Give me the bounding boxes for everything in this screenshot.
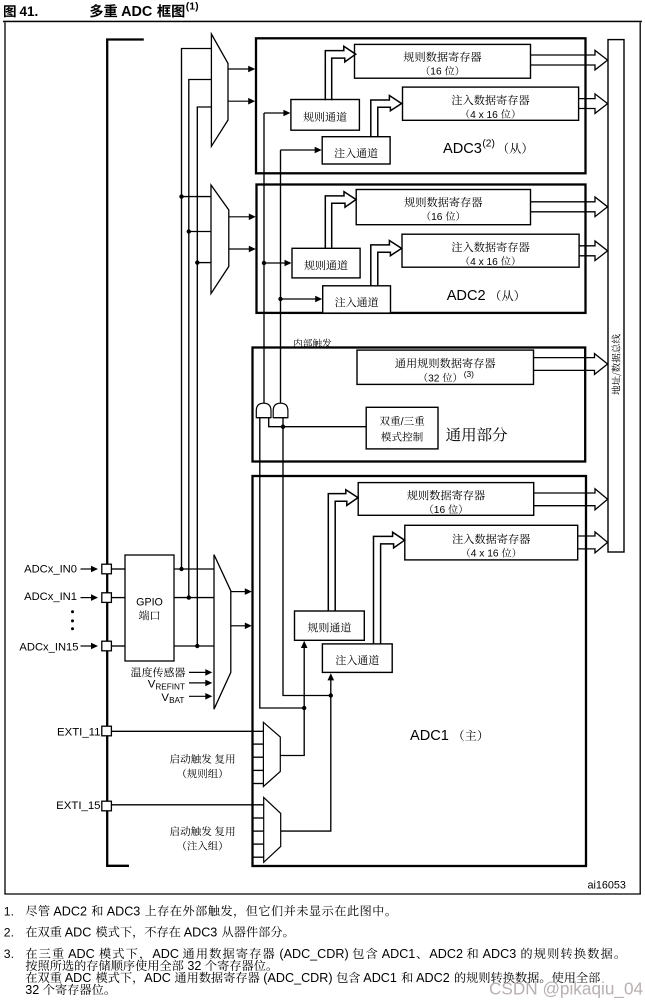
wire mux2 branch 2 [189, 231, 211, 233]
wire feeder A (to mux1 in1, down to GPIO line1) [182, 49, 212, 570]
title 图 41. 多重 ADC 框图(1) [4, 1, 199, 21]
svg-text:REFINT: REFINT [155, 683, 185, 692]
GPIO text [136, 597, 163, 621]
svg-text:1.: 1. [4, 904, 14, 918]
wire GPIO out 2 to mux3 [174, 597, 214, 599]
ADC1 regular channel box [295, 611, 365, 640]
svg-text:ADC1: ADC1 [379, 947, 415, 961]
svg-text:EXTI_11: EXTI_11 [57, 726, 100, 738]
outer frame right [639, 22, 641, 894]
ADC2 regular elbow arrow [325, 192, 356, 249]
pin square ADCx_IN1 [102, 593, 112, 603]
ADC3 regular elbow arrow [325, 46, 355, 100]
title rule [3, 21, 642, 23]
svg-text:ADC2: ADC2 [51, 904, 91, 918]
svg-text:2.: 2. [4, 925, 14, 939]
footnote 2 [4, 925, 287, 939]
bus label 地址/数据总线 [612, 334, 622, 394]
svg-text:(2): (2) [482, 139, 494, 150]
ADC2 injected data register box [402, 234, 579, 267]
pin square ADCx_IN0 [102, 564, 112, 574]
wire ADC2 regular trigger branch [262, 260, 292, 267]
svg-text:ADCx_IN0: ADCx_IN0 [24, 564, 77, 576]
label 温度传感器 [131, 667, 212, 677]
ADC3 regular->bus wide arrow [531, 50, 608, 70]
ADC2 injected channel box [323, 286, 391, 313]
GPIO port box [125, 555, 174, 661]
label ADCx_IN15 [19, 641, 98, 653]
wire dome1 output down to ADC1 [260, 418, 304, 708]
svg-text:CSDN @pikaqiu_04: CSDN @pikaqiu_04 [489, 979, 644, 999]
svg-text:ADC3: ADC3 [104, 904, 144, 918]
svg-text:41.: 41. [20, 4, 39, 19]
ADC1 injected channel text [336, 655, 379, 665]
ADC3 label [443, 139, 526, 157]
svg-text:32: 32 [428, 373, 442, 384]
label EXTI_11 [57, 726, 100, 738]
footnote 1 [4, 904, 389, 918]
ADC2 regular channel text [304, 260, 347, 270]
svg-text:ADC3: ADC3 [181, 925, 221, 939]
svg-text:EXTI_15: EXTI_15 [56, 800, 100, 812]
svg-text:/: / [401, 416, 404, 428]
wire pin IN15 to GPIO [111, 645, 125, 647]
ADC1 label [410, 728, 481, 744]
OR gate dome 1 (regular trigger merge) [256, 403, 271, 418]
svg-text:ADC1: ADC1 [361, 971, 401, 985]
junction dot regular trigger [302, 706, 306, 710]
common register text [395, 358, 495, 385]
common regular data register box [357, 350, 534, 384]
ADC2 injected channel text [335, 297, 378, 307]
wire mux2 branch 1 [182, 196, 212, 198]
svg-text:(ADC_CDR): (ADC_CDR) [276, 947, 352, 961]
wire GPIO out 1 to mux3 [174, 568, 214, 570]
wire mux2 branch 3 [197, 262, 211, 264]
footnote 3 line 4 [25, 983, 108, 997]
pin square EXTI_15 [102, 801, 112, 811]
wire EXTI_15 [111, 804, 264, 806]
wire internal trigger B (injected) [281, 147, 322, 405]
injected trigger mux input ticks [252, 818, 264, 857]
mux M3 (ADC1 input mux) [214, 555, 231, 710]
label ai16053 [588, 879, 626, 891]
footnote 3 line 1 [4, 947, 618, 961]
ellipsis dots [71, 610, 74, 630]
outer frame bottom [4, 893, 640, 895]
label EXTI_15 [56, 800, 100, 812]
ADC2 regular data register box [356, 190, 530, 225]
regular trigger mux input ticks [252, 744, 264, 783]
ADC1 injected elbow arrow [374, 532, 405, 644]
ADC3 injected channel box [322, 137, 390, 164]
ADC1 injected->bus wide arrow [578, 532, 608, 553]
ADC3 regular channel box [291, 100, 360, 131]
ADC3 inj register text [452, 95, 530, 121]
ADC2 injected elbow arrow [371, 241, 402, 287]
svg-text:ADC: ADC [144, 971, 174, 985]
svg-text:ADC2: ADC2 [429, 947, 466, 961]
address/data bus [608, 40, 624, 552]
ADC3 reg register text [404, 51, 482, 77]
pin square ADCx_IN15 [102, 641, 112, 651]
svg-text:4 x 16: 4 x 16 [470, 110, 501, 121]
svg-text:4 x 16: 4 x 16 [471, 549, 502, 560]
ADC2 label [447, 288, 518, 304]
wire EXTI_11 [111, 730, 263, 732]
ADC3 injected channel text [335, 148, 378, 158]
ADC3 injected elbow arrow [371, 96, 402, 138]
ADC3 regular channel text [303, 112, 346, 122]
footnote 3 line 2 [26, 959, 270, 973]
label 启动触发复用（规则组） [170, 754, 235, 779]
ADC1 regular data register box [358, 483, 534, 516]
ADC2 regular channel box [292, 248, 360, 278]
svg-text:ADC2: ADC2 [413, 971, 453, 985]
svg-text:ADC3: ADC3 [443, 141, 482, 157]
svg-text:ADC2: ADC2 [447, 288, 486, 304]
wire pin IN0 to GPIO [111, 568, 125, 570]
label 启动触发复用（注入组） [170, 826, 235, 850]
ADC2 reg register text [404, 197, 482, 223]
label ADCx_IN0 [24, 564, 98, 576]
mux M1 (ADC3 input mux) [211, 34, 228, 146]
device boundary bracket [107, 40, 144, 866]
ADC2 injected->bus wide arrow [579, 241, 608, 261]
wire pin IN1 to GPIO [111, 597, 125, 599]
svg-text:GPIO: GPIO [136, 597, 163, 609]
ADC1 injected channel box [322, 644, 392, 673]
svg-text:ADC3: ADC3 [480, 947, 520, 961]
label 通用部分 [446, 427, 507, 441]
ADC3 injected data register box [403, 87, 579, 120]
ADC1 regular elbow arrow [328, 490, 358, 612]
watermark CSDN [489, 979, 644, 999]
label VBAT [161, 692, 212, 705]
ADC2 regular->bus wide arrow [531, 197, 608, 217]
block ADC1 box [253, 476, 587, 866]
ADC1 injected data register box [405, 525, 578, 560]
junction dot mode/dome2 [281, 425, 285, 429]
wire mode control to domes [269, 418, 367, 427]
label ADCx_IN1 [24, 591, 98, 603]
svg-text:16: 16 [430, 67, 444, 78]
dual/triple mode control box [366, 407, 438, 449]
outer frame left [4, 22, 6, 894]
ADC1 reg register text [407, 490, 485, 516]
mux M4 (regular group start trigger) [263, 722, 280, 786]
svg-text:(ADC_CDR): (ADC_CDR) [260, 971, 336, 985]
label 内部触发 [294, 339, 331, 348]
mux M1 output arrows [228, 66, 255, 105]
svg-text:32: 32 [184, 959, 205, 973]
svg-text:ai16053: ai16053 [588, 879, 626, 891]
svg-text:16: 16 [431, 212, 445, 223]
wire dome2 output down to ADC1 [283, 418, 331, 696]
svg-text:4 x 16: 4 x 16 [470, 257, 501, 268]
block ADC3 box [256, 38, 586, 173]
svg-text:(3): (3) [464, 369, 474, 379]
wire ADC2 injected trigger branch [278, 296, 322, 303]
common->bus wide arrow [534, 354, 608, 375]
svg-text:ADC: ADC [118, 4, 157, 20]
svg-text:16: 16 [434, 505, 448, 516]
ADC1 regular->bus wide arrow [534, 489, 608, 510]
block ADC2 box [257, 185, 586, 313]
mux M2 output arrows [229, 214, 256, 253]
svg-text:ADCx_IN1: ADCx_IN1 [24, 591, 77, 603]
ADC2 inj register text [452, 242, 530, 268]
svg-text:32: 32 [25, 983, 43, 997]
wire injected trigger to ADC1 injected channel [281, 673, 334, 831]
svg-text:(1): (1) [186, 1, 199, 13]
svg-text:3.: 3. [4, 947, 14, 961]
svg-text:ADCx_IN15: ADCx_IN15 [19, 641, 78, 653]
wire regular trigger to ADC1 regular channel [280, 641, 307, 756]
mux M2 (ADC2 input mux) [211, 185, 229, 294]
ADC3 regular data register box [355, 44, 531, 78]
junction dots feeders [179, 194, 199, 648]
mux M3 output arrows [231, 588, 252, 629]
junction dot injected trigger [329, 693, 333, 697]
wire internal trigger A (regular) [264, 110, 290, 405]
mode control text [380, 416, 425, 442]
ADC3 injected->bus wide arrow [579, 94, 608, 114]
svg-text:ADC: ADC [65, 947, 98, 961]
footnote 3 line 3 [26, 971, 600, 985]
ADC1 regular channel text [308, 622, 351, 632]
svg-text:BAT: BAT [169, 696, 184, 705]
wire GPIO out 3 to mux3 [174, 645, 214, 647]
OR gate dome 2 (injected trigger merge) [273, 403, 288, 418]
pin square EXTI_11 [102, 726, 112, 736]
svg-text:ADC: ADC [152, 947, 182, 961]
mux M5 (injected group start trigger) [264, 797, 281, 862]
wire feeder B (to mux1 in2, down to GPIO line2) [189, 80, 212, 598]
svg-text:ADC: ADC [62, 971, 95, 985]
svg-text:ADC1: ADC1 [410, 728, 449, 744]
wire feeder C (to mux1 in3, down to GPIO line3) [197, 107, 211, 646]
block common part box [253, 348, 586, 462]
ADC1 inj register text [452, 534, 530, 560]
label VREFINT [148, 679, 213, 692]
svg-text:ADC: ADC [62, 925, 95, 939]
